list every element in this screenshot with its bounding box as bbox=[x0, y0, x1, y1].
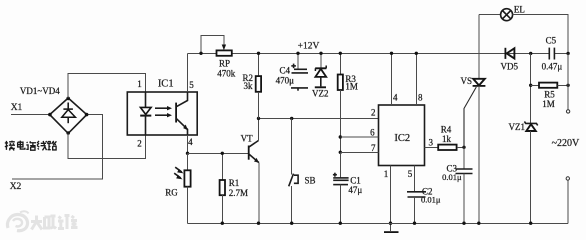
capacitor C1 top lead bbox=[339, 152, 341, 178]
svg-text:2: 2 bbox=[371, 107, 376, 117]
svg-text:+12V: +12V bbox=[298, 42, 320, 52]
IC2 pin 6 wire bbox=[340, 136, 378, 138]
svg-text:X1: X1 bbox=[11, 103, 23, 113]
node rail VS bbox=[477, 222, 480, 225]
op-to coupler IC1 box bbox=[127, 92, 197, 135]
node pin6 junction bbox=[339, 135, 342, 138]
wire trigger bus (R2/C4/SB to IC2 pin 2) bbox=[259, 117, 379, 119]
+12V rail left segment bbox=[188, 52, 217, 54]
svg-text:0.01μ: 0.01μ bbox=[421, 195, 441, 205]
timer IC2 box bbox=[379, 105, 425, 166]
capacitor C2 plates bbox=[407, 192, 426, 197]
svg-text:5: 5 bbox=[189, 80, 194, 90]
svg-text:4: 4 bbox=[188, 137, 193, 147]
node bridge right junction bbox=[85, 113, 89, 117]
node pin4 rail junction bbox=[390, 52, 393, 55]
node pin7 junction bbox=[339, 151, 342, 154]
wire X1 to bridge left bbox=[11, 114, 50, 116]
svg-text:R4: R4 bbox=[441, 124, 452, 134]
char 线 bbox=[37, 141, 47, 150]
RP wiper arrowhead bbox=[222, 45, 226, 51]
IC2 pin 1 wire down bbox=[390, 166, 392, 224]
svg-text:VD1~VD4: VD1~VD4 bbox=[20, 86, 60, 96]
mains terminal upper circle bbox=[566, 110, 569, 113]
svg-text:47μ: 47μ bbox=[348, 185, 362, 195]
node R1 top junction bbox=[221, 152, 224, 155]
IC1 internal LED lead bbox=[145, 92, 147, 108]
capacitor C1 polarized plates bbox=[333, 178, 348, 185]
bridge inner diode symbol bbox=[62, 103, 76, 124]
svg-text:470k: 470k bbox=[217, 69, 236, 79]
resistor R5 bbox=[539, 83, 557, 88]
wire R5 right bbox=[557, 84, 568, 86]
char 话 bbox=[26, 141, 36, 150]
zener diode VZ2 top lead bbox=[320, 53, 322, 68]
node rail C1 bbox=[339, 222, 342, 225]
+12V rail main segment bbox=[232, 52, 550, 54]
node SB top junction bbox=[290, 117, 293, 120]
svg-text:R5: R5 bbox=[544, 89, 555, 99]
node rail C3 bbox=[462, 222, 465, 225]
watermark bottom-left (very faint) bbox=[7, 211, 77, 230]
wire RG to ground rail bbox=[187, 187, 189, 224]
resistor R1 bbox=[220, 180, 225, 195]
char 接 bbox=[5, 141, 15, 151]
RG light arrows bbox=[174, 167, 183, 179]
capacitor C3 top lead bbox=[463, 147, 465, 169]
resistor R3 top lead bbox=[339, 53, 341, 74]
C4 plus sign bbox=[291, 64, 296, 69]
wire bridge top to IC1 pin 1 bbox=[68, 74, 145, 99]
svg-text:1: 1 bbox=[384, 169, 389, 179]
char 电 bbox=[18, 141, 25, 149]
svg-text:IC1: IC1 bbox=[158, 79, 174, 90]
char 路 bbox=[48, 141, 57, 150]
svg-text:C5: C5 bbox=[546, 35, 557, 45]
node bridge left junction bbox=[48, 113, 52, 117]
potentiometer RP body bbox=[217, 50, 232, 55]
IC1 phototransistor bbox=[176, 92, 188, 135]
node VZ1 branch rail junction bbox=[529, 52, 532, 55]
svg-text:3: 3 bbox=[429, 138, 434, 148]
resistor R2 top lead bbox=[258, 53, 260, 76]
bridge rectifier VD1~VD4 diamond bbox=[50, 98, 87, 133]
ground symbol at IC2 pin 1 bbox=[384, 223, 399, 232]
node bridge top junction bbox=[66, 97, 70, 101]
wire right mains branch upper bbox=[567, 53, 569, 109]
wire VZ1 branch down bbox=[530, 53, 532, 123]
IC2 pin 8 wire to rail bbox=[415, 53, 417, 105]
svg-text:1M: 1M bbox=[542, 99, 555, 109]
wire IC1 pin 4 down to node A bbox=[187, 135, 189, 153]
node bridge bottom junction bbox=[66, 131, 70, 135]
wire VT emitter to ground rail bbox=[258, 163, 260, 224]
IC1 internal LED bbox=[140, 107, 151, 135]
node RP loop junction bbox=[199, 52, 202, 55]
node rail R1 bbox=[221, 222, 224, 225]
ground rail wire bbox=[188, 222, 568, 224]
svg-text:8: 8 bbox=[418, 92, 423, 102]
node rail C2 bbox=[413, 222, 416, 225]
svg-text:2.7M: 2.7M bbox=[229, 188, 248, 198]
resistor R2 bbox=[256, 76, 261, 92]
node pin1 ground-rail junction bbox=[389, 222, 392, 225]
transistor VT bbox=[249, 141, 259, 163]
node A junction dot (pin4/RG/base wire) bbox=[186, 152, 189, 155]
capacitor C4 top lead bbox=[297, 53, 299, 69]
+12V rail right stub after C5 bbox=[554, 52, 568, 54]
zener diode VZ2 bbox=[315, 66, 327, 88]
diode VD5 bbox=[505, 48, 514, 59]
svg-text:0.01μ: 0.01μ bbox=[442, 172, 462, 182]
IC2 pin 3 wire bbox=[425, 146, 439, 148]
svg-text:0.47μ: 0.47μ bbox=[542, 61, 563, 71]
svg-text:1M: 1M bbox=[345, 82, 358, 92]
wire node A to VT base bbox=[188, 152, 249, 154]
IC2 pin 5 wire down bbox=[414, 166, 416, 192]
photoresistor RG lead top bbox=[187, 153, 189, 170]
IC1 light arrows bbox=[155, 106, 172, 117]
wire R5 left bbox=[531, 84, 539, 86]
svg-text:~220V: ~220V bbox=[552, 138, 580, 149]
svg-text:RP: RP bbox=[219, 59, 230, 69]
svg-text:VS: VS bbox=[460, 76, 472, 86]
svg-text:VD5: VD5 bbox=[501, 61, 519, 71]
wire C3 to ground rail bbox=[463, 174, 465, 224]
svg-text:R1: R1 bbox=[229, 178, 240, 188]
svg-text:4: 4 bbox=[393, 92, 398, 102]
node rail VT emitter bbox=[257, 222, 260, 225]
svg-text:VZ2: VZ2 bbox=[312, 88, 329, 98]
node R3 rail junction bbox=[339, 52, 342, 55]
svg-text:RG: RG bbox=[165, 188, 178, 198]
svg-text:7: 7 bbox=[371, 143, 376, 153]
pushbutton SB lower lead bbox=[291, 186, 293, 223]
node C4 rail junction bbox=[296, 52, 299, 55]
zener diode VZ1 bbox=[524, 122, 537, 132]
wire X2 to bridge right bbox=[12, 115, 103, 179]
node rail SB bbox=[290, 222, 293, 225]
wire R3 bottom to pin6/pin7 node bbox=[339, 90, 341, 152]
label 接电话线路 (connect phone line) drawn strokes bbox=[5, 141, 57, 151]
svg-text:3k: 3k bbox=[244, 81, 254, 91]
node VZ2 rail junction bbox=[319, 52, 322, 55]
svg-text:2: 2 bbox=[137, 138, 142, 148]
node R2 rail junction bbox=[257, 52, 260, 55]
svg-text:VT: VT bbox=[241, 133, 253, 143]
wire C2 to ground rail bbox=[414, 197, 416, 223]
resistor R1 lead bbox=[221, 153, 223, 180]
capacitor C4 polarized plates bbox=[291, 69, 308, 90]
svg-text:X2: X2 bbox=[10, 182, 22, 192]
pushbutton SB actuator bracket bbox=[294, 175, 298, 183]
wire IC1 pin 5 up to +12V rail bbox=[187, 53, 189, 92]
wire VS cathode to ground rail bbox=[478, 86, 480, 223]
thyristor VS bbox=[473, 79, 486, 86]
wire R4 to gate node bbox=[457, 146, 464, 148]
IC2 pin 7 wire bbox=[340, 151, 378, 153]
node R5 left junction bbox=[529, 84, 532, 87]
svg-text:C4: C4 bbox=[279, 66, 290, 76]
node C5 right rail junction bbox=[566, 52, 569, 55]
pushbutton SB lever bbox=[289, 174, 294, 187]
svg-text:EL: EL bbox=[514, 4, 525, 14]
node rail VZ1 bbox=[529, 222, 532, 225]
svg-text:470μ: 470μ bbox=[276, 75, 295, 85]
svg-text:1: 1 bbox=[137, 79, 142, 89]
node pin8 rail junction bbox=[415, 52, 418, 55]
wire bridge bottom to IC1 pin 2 bbox=[68, 133, 145, 158]
mains terminal lower circle bbox=[566, 177, 569, 180]
C1 plus sign bbox=[333, 173, 337, 177]
svg-text:1k: 1k bbox=[442, 134, 452, 144]
svg-text:6: 6 bbox=[370, 128, 375, 138]
wire VZ1 to ground rail bbox=[530, 131, 532, 223]
node R2 bottom junction bbox=[257, 117, 260, 120]
IC2 pin 4 wire to rail bbox=[391, 53, 393, 105]
wire top lamp feed right bbox=[513, 14, 569, 53]
svg-text:5: 5 bbox=[408, 169, 413, 179]
wire EL branch vertical (anode of VS up to lamp wire) bbox=[478, 14, 480, 78]
svg-text:IC2: IC2 bbox=[394, 133, 410, 144]
svg-text:SB: SB bbox=[304, 176, 315, 186]
wire top lamp feed left bbox=[479, 13, 501, 15]
VS gate lead bbox=[464, 87, 476, 147]
lamp EL bbox=[501, 9, 513, 21]
wire R1 to ground rail bbox=[221, 195, 223, 223]
wire C1 to ground rail bbox=[339, 185, 341, 224]
capacitor C3 plates bbox=[456, 169, 473, 174]
svg-text:VZ1: VZ1 bbox=[509, 122, 526, 132]
node gate/R4/C3 junction bbox=[462, 146, 465, 149]
photoresistor RG bbox=[184, 170, 190, 186]
resistor R2 bottom lead bbox=[258, 92, 260, 119]
capacitor C5 plates bbox=[549, 48, 554, 60]
resistor R4 bbox=[438, 145, 456, 150]
potentiometer RP wiper loop bbox=[201, 36, 224, 54]
node R5 right junction bbox=[566, 84, 569, 87]
wire lower mains terminal to ground rail bbox=[567, 180, 569, 223]
pushbutton SB upper lead bbox=[291, 118, 293, 174]
resistor R3 bbox=[338, 75, 343, 91]
wire VT collector up bbox=[258, 118, 260, 140]
